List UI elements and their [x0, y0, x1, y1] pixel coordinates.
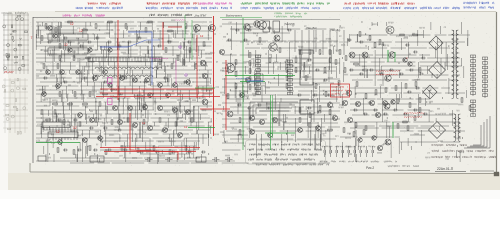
resistor R106 [415, 82, 417, 86]
inductor row L1 [95, 67, 162, 69]
resistor R108 [369, 36, 371, 40]
capacitor C50 [104, 81, 106, 84]
capacitor C78 [268, 107, 270, 110]
transistor VT20 [274, 35, 280, 41]
left ghost rails [3, 78, 28, 133]
resistor R113 [89, 146, 91, 150]
red diag [130, 150, 178, 160]
capacitor C25 [408, 91, 410, 94]
transistor VT32 [386, 26, 394, 34]
left strip rails [3, 13, 29, 74]
svg-text:НИка: НИка [110, 88, 117, 92]
resistor R71 [43, 64, 45, 68]
capacitor C15 [314, 94, 316, 97]
capacitor C13 [360, 41, 362, 44]
capacitor C36 [202, 151, 204, 154]
bottom row components [38, 156, 233, 162]
resistor R122 [299, 108, 301, 112]
green top seg [220, 17, 262, 19]
capacitor C11 [324, 79, 326, 82]
red trace vertical x163 [162, 22, 164, 50]
bridge VD3 [423, 85, 437, 99]
resistor R37 [286, 84, 288, 88]
magenta note mid [150, 58, 168, 59]
resistor R111 [57, 148, 59, 152]
resistor R25 [89, 92, 91, 96]
transistor VT66 [88, 48, 92, 52]
svg-text:12: 12 [200, 34, 204, 38]
sheet right edge [496, 12, 498, 176]
bus drop lines [295, 30, 344, 58]
resistor R115 [121, 146, 123, 150]
resistor R72 [57, 64, 59, 68]
resistor R42 [68, 103, 72, 105]
green trace x272 [272, 95, 274, 138]
red bus bottom 1 [100, 147, 200, 149]
schematic sheet [8, 11, 497, 173]
resistor R5 [168, 30, 172, 32]
red warning text 2 [332, 90, 348, 92]
green seg y133 [265, 132, 295, 134]
resistor R40 [419, 108, 421, 112]
resistor R17 [324, 68, 326, 72]
resistor R28 [138, 95, 142, 97]
magenta box 2 [108, 99, 113, 105]
resistor R51 [355, 123, 357, 127]
capacitor C41 [88, 41, 90, 44]
resistor R30 [249, 61, 251, 65]
transistor VT65 [68, 48, 72, 52]
connector X2 [483, 57, 488, 98]
transistor VT2 [92, 75, 97, 80]
transistor VT11 [194, 25, 201, 32]
resistor R41 [53, 103, 57, 105]
connector X4 [288, 60, 293, 95]
resistor R79 [79, 122, 81, 126]
notes block 3 [432, 144, 496, 158]
resistor R110 [419, 68, 421, 72]
resistor R95 [305, 76, 307, 80]
capacitor C69 [374, 109, 376, 112]
capacitor C12 [348, 39, 350, 42]
svg-text:12: 12 [64, 43, 68, 47]
capacitor C2 [80, 45, 82, 48]
transistor VT67 [108, 48, 112, 52]
capacitor C49 [84, 77, 86, 80]
resistor R62 [55, 28, 57, 32]
scan speckle [30, 14, 495, 166]
transistor VT3 [103, 70, 108, 75]
capacitor C54 [184, 81, 186, 84]
resistor R16 [295, 58, 297, 62]
resistor R98 [335, 60, 337, 64]
svg-text:12: 12 [142, 121, 146, 125]
left margin [0, 0, 8, 190]
resistor R91 [259, 38, 261, 42]
transistor VT6 [145, 78, 150, 83]
resistor R47 [189, 48, 191, 52]
transistor VT71 [166, 93, 171, 98]
transistor VT52 [118, 120, 123, 125]
magenta mark 2 [185, 74, 187, 76]
svg-text:25-А67: 25-А67 [4, 70, 14, 74]
magenta box 1 [108, 78, 113, 84]
red horiz top [168, 26, 182, 28]
transistor VT77 [58, 140, 63, 145]
top note blue 5 [464, 2, 494, 5]
resistor R67 [195, 28, 197, 32]
resistor R53 [328, 129, 332, 131]
sheet top edge [55, 11, 496, 13]
left border wire [32, 17, 34, 163]
transistor VT34 [385, 75, 391, 81]
resistor R73 [159, 60, 161, 64]
resistor R70 [86, 57, 90, 59]
resistor R127 [353, 132, 355, 136]
capacitor C45 [168, 41, 170, 44]
header green note [275, 12, 307, 14]
red note text B [404, 113, 424, 114]
capacitor C65 [410, 69, 412, 72]
capacitor C26 [416, 87, 418, 90]
resistor R2 [83, 29, 87, 31]
resistor R24 [74, 92, 76, 96]
capacitor C58 [288, 29, 290, 32]
transistor VT42 [391, 100, 395, 104]
transistor VT18 [219, 49, 224, 54]
resistor R124 [319, 106, 321, 110]
capacitor C61 [370, 69, 372, 72]
green bus left [36, 142, 80, 144]
resistor R18 [344, 68, 346, 72]
capacitor C1 [64, 37, 66, 40]
wire horizontal rails [36, 22, 470, 163]
transistor VT55 [163, 128, 168, 133]
resistor R49 [165, 48, 167, 52]
red note text B2 [404, 117, 422, 118]
top note red 1 [88, 2, 121, 5]
resistor R6 [41, 36, 43, 40]
capacitor C7 [236, 29, 238, 32]
capacitor C62 [380, 73, 382, 76]
red bus 3 [96, 96, 220, 98]
transformer T1 [452, 30, 459, 99]
resistor R129 [397, 124, 399, 128]
transistor VT63 [408, 62, 412, 66]
resistor R78 [63, 120, 65, 124]
capacitor C34 [172, 151, 174, 154]
capacitor C46 [188, 41, 190, 44]
resistor R116 [137, 148, 139, 152]
transistor VT13 [244, 24, 250, 30]
bridge VD1 [429, 36, 443, 50]
red trace vertical x130 [129, 113, 131, 150]
capacitor C59 [350, 69, 352, 72]
transistor VT70 [148, 93, 153, 98]
resistor R65 [145, 28, 147, 32]
resistor R50 [203, 42, 205, 46]
blue small text [236, 78, 249, 79]
rule left [398, 170, 430, 172]
bottom white strip [0, 190, 500, 199]
red trace vertical left [117, 20, 119, 100]
capacitor C27 [64, 149, 66, 152]
capacitor C33 [156, 151, 158, 154]
resistor R38 [419, 98, 421, 102]
resistor R60 [469, 106, 471, 110]
resistor R117 [153, 146, 155, 150]
top note blue 3 [241, 7, 320, 10]
capacitor C31 [124, 149, 126, 152]
red trace vertical x225 [225, 60, 227, 130]
transistor VT25 [249, 115, 254, 120]
capacitor C63 [390, 69, 392, 72]
transistor VT12 [209, 25, 216, 32]
capacitor C32 [140, 151, 142, 154]
top note blue 6 [464, 6, 494, 9]
resistor R1 [68, 21, 72, 23]
resistor R103 [385, 88, 387, 92]
svg-text:12: 12 [184, 125, 188, 129]
capacitor C3 [96, 37, 98, 40]
capacitor C70 [384, 113, 386, 116]
corner mark [494, 172, 499, 176]
sheet bottom corner [29, 163, 31, 172]
transistor VT22 [245, 77, 250, 82]
transistor VT47 [128, 106, 133, 111]
IC A3 [48, 130, 78, 141]
svg-text:„Упр.ЛПМ“: „Упр.ЛПМ“ [194, 14, 207, 18]
capacitor C18 [414, 51, 416, 54]
left strip header text [2, 12, 27, 15]
resistor R23 [59, 92, 61, 96]
blue trace 2 [100, 46, 128, 48]
relay K1 contacts [302, 53, 312, 77]
resistor R75 [183, 60, 185, 64]
capacitor C10 [316, 69, 318, 72]
resistor R114 [105, 150, 107, 154]
transistor VT56 [178, 133, 183, 138]
svg-text:(7кв2)(9б): (7кв2)(9б) [284, 23, 295, 26]
resistor R35 [286, 68, 288, 72]
transistor VT35 [346, 90, 352, 96]
component designator texture [37, 19, 464, 159]
resistor R61 [45, 24, 47, 28]
red warning box [331, 84, 350, 97]
svg-text:7: 7 [31, 36, 33, 40]
transistor VT27 [272, 117, 277, 122]
capacitor C64 [400, 73, 402, 76]
green trace x270 [270, 95, 272, 150]
green trace x192 [191, 20, 193, 60]
transistor VT51 [186, 110, 191, 115]
resistor R54 [309, 123, 311, 127]
resistor R76 [195, 64, 197, 68]
resistor R7 [59, 44, 61, 48]
transistor VT26 [259, 119, 264, 124]
transistor VT72 [240, 93, 245, 98]
resistor R15 [339, 50, 341, 54]
capacitor C6 [158, 45, 160, 48]
capacitor bank labels [320, 160, 379, 162]
green seg y127 [188, 127, 215, 129]
capacitor C75 [238, 104, 240, 107]
relay K1 [300, 50, 313, 85]
svg-text:22Ан.01-П: 22Ан.01-П [437, 167, 454, 171]
transistor VT64 [53, 34, 57, 38]
top note blue 4 [344, 7, 460, 10]
top note magenta 2 [200, 2, 232, 5]
notes right of fig [388, 165, 419, 167]
capacitor C77 [258, 104, 260, 107]
transistor VT78 [83, 138, 88, 143]
top note blue 2 [146, 7, 232, 10]
transistor VT73 [298, 128, 303, 133]
capacitor C73 [414, 109, 416, 112]
resistor R123 [309, 113, 311, 117]
capacitor C16 [328, 94, 330, 97]
resistor R83 [143, 120, 145, 124]
transistor VT80 [358, 138, 362, 142]
capacitor C44 [148, 41, 150, 44]
schematic top border [33, 17, 212, 19]
red bus bottom 2 [104, 151, 196, 153]
transistor VT14 [254, 21, 260, 27]
wire vertical connectors [36, 22, 468, 164]
transistor VT69 [42, 92, 47, 97]
transistor VT60 [60, 70, 65, 75]
resistor R96 [315, 84, 317, 88]
resistor R22 [413, 34, 417, 36]
connector X5 [471, 100, 476, 116]
top note red 4 [345, 2, 414, 5]
transistor VT1 [48, 26, 53, 31]
transistor VT53 [133, 123, 138, 128]
capacitor C67 [354, 109, 356, 112]
capacitor C48 [64, 81, 66, 84]
transistor VT48 [143, 105, 148, 110]
capacitor bank top labels [322, 145, 375, 147]
resistor R128 [363, 130, 365, 134]
transistor VT33 [389, 52, 395, 58]
transistor VT16 [202, 73, 207, 78]
green seg y88 [195, 87, 215, 89]
capacitor C53 [164, 77, 166, 80]
green trace x185 [184, 15, 186, 40]
resistor R104 [395, 86, 397, 90]
transistor VT54 [148, 126, 153, 131]
resistor R84 [159, 118, 161, 122]
svg-text:Рис.2: Рис.2 [366, 166, 374, 170]
resistor R82 [127, 118, 129, 122]
resistor R99 [345, 56, 347, 60]
green seg y82 [240, 81, 265, 83]
transistor VT21 [258, 21, 267, 30]
left strip components [3, 15, 28, 70]
resistor R81 [111, 120, 113, 124]
transformer T2 [454, 114, 461, 141]
svg-text:12: 12 [56, 130, 60, 134]
capacitor C55 [228, 39, 230, 42]
red trace vertical x197 [196, 35, 198, 98]
capacitor C57 [268, 27, 270, 30]
resistor R77 [46, 119, 50, 121]
resistor R14 [329, 50, 331, 54]
transistor VT24 [227, 111, 233, 117]
resistor R21 [400, 34, 404, 36]
resistor R29 [249, 53, 251, 57]
transistor VT37 [327, 102, 332, 107]
red warning text 1 [332, 86, 348, 88]
green seg x395 [394, 52, 396, 62]
transistor VT19 [269, 43, 277, 51]
capacitor C52 [144, 81, 146, 84]
bridge VD2 [429, 62, 446, 79]
magenta mark 1 [179, 46, 181, 48]
resistor R107 [359, 32, 361, 36]
transistor VT28 [250, 130, 255, 135]
transistor VT5 [133, 78, 138, 83]
resistor R97 [325, 92, 327, 96]
transistor VT58 [90, 118, 95, 123]
sheet bottom edge [30, 172, 496, 174]
resistor R119 [185, 146, 187, 150]
capacitor bank labels right [384, 161, 397, 163]
resistor R44 [99, 102, 101, 106]
resistor R56 [397, 99, 399, 103]
resistor R87 [235, 60, 237, 64]
capacitor C9 [308, 59, 310, 62]
svg-text:12: 12 [70, 22, 74, 26]
red bus 2 [100, 92, 213, 94]
resistor R26 [103, 93, 107, 95]
notes box outline [246, 140, 326, 164]
resistor R68 [59, 56, 61, 60]
transistor VT79 [98, 136, 103, 141]
rule right [470, 170, 494, 172]
svg-text:×: × [406, 56, 408, 60]
capacitor C21 [74, 119, 76, 122]
resistor R120 [239, 118, 241, 122]
top note red 2 [147, 2, 198, 5]
capacitor C14 [298, 94, 300, 97]
capacitor C47 [44, 77, 46, 80]
blue trace 1 [128, 32, 152, 85]
transistor VT62 [403, 58, 407, 62]
resistor R3 [108, 21, 112, 23]
resistor R36 [286, 76, 288, 80]
svg-text:Выключатель: Выключатель [226, 14, 243, 18]
resistor R19 [363, 69, 367, 71]
bottom beige strip [0, 173, 500, 190]
transistor VT75 [385, 139, 391, 145]
green trace x243 [242, 18, 244, 150]
resistor R112 [73, 150, 75, 154]
header green note 2 [275, 15, 302, 17]
resistor R130 [407, 126, 409, 130]
transistor VT7 [158, 83, 163, 88]
transistor VT44 [347, 117, 352, 122]
resistor R74 [171, 64, 173, 68]
header magenta note [63, 14, 104, 17]
transistor VT50 [173, 108, 178, 113]
transistor VT4 [120, 76, 125, 81]
resistor R48 [177, 56, 179, 60]
resistor R93 [279, 48, 281, 52]
svg-text:12: 12 [73, 126, 77, 130]
capacitor C66 [420, 73, 422, 76]
resistor R105 [405, 84, 407, 88]
